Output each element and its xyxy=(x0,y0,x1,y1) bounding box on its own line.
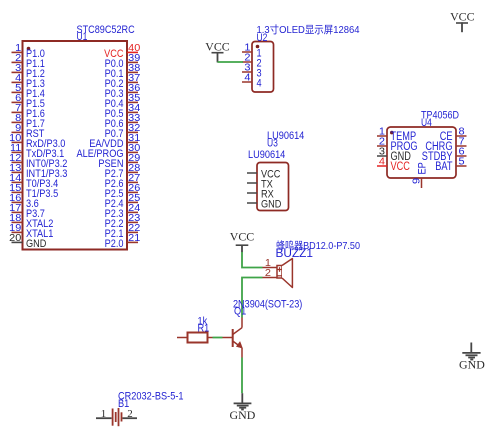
svg-text:1.3寸OLED显示屏12864: 1.3寸OLED显示屏12864 xyxy=(257,23,360,36)
U1 pin 28 (P2.7) xyxy=(105,163,141,180)
connector U2 1.3inch OLED display body xyxy=(252,42,274,93)
U1 pin 33 (P0.6) xyxy=(105,113,141,130)
U1 pin 26 (P2.5) xyxy=(105,183,141,200)
U1 pin 15 (T1/P3.5) xyxy=(9,183,58,200)
U2 part name label 1.3寸OLED显示屏12864 xyxy=(257,23,360,36)
U1 pin 21 (P2.0) xyxy=(105,233,141,250)
U4 pin 4 (VCC) xyxy=(377,157,410,174)
resistor R1 xyxy=(177,333,213,343)
svg-text:BAT: BAT xyxy=(435,161,452,173)
BUZZ1 pin 1 xyxy=(263,258,278,269)
U1 pin 29 (PSEN) xyxy=(98,153,140,170)
U2 pin 1 xyxy=(242,43,262,60)
buzzer BUZZ1 body xyxy=(277,259,292,288)
battery B1 pin 1 xyxy=(96,408,112,420)
U4 designator label xyxy=(421,117,432,129)
Q1 designator label xyxy=(234,306,246,318)
U1 pin 6 (P1.5) xyxy=(12,93,45,110)
U1 pin 18 (XTAL2) xyxy=(9,213,53,230)
U1 pin 9 (RST) xyxy=(12,123,45,140)
U1 pin 3 (P1.2) xyxy=(12,63,45,80)
svg-text:5: 5 xyxy=(459,157,466,168)
BUZZ1 pin 2 xyxy=(263,268,278,279)
U1 pin 30 (ALE/PROG) xyxy=(77,143,141,160)
R1 designator label xyxy=(198,323,210,335)
power port GND (right) xyxy=(459,343,485,372)
U1 pin 25 (P2.4) xyxy=(105,193,141,210)
svg-text:EP: EP xyxy=(417,162,429,174)
U1 pin 39 (P0.0) xyxy=(105,53,141,70)
svg-text:P2.0: P2.0 xyxy=(105,238,124,250)
U1 pin 2 (P1.1) xyxy=(12,53,45,70)
battery B1 pin 2 xyxy=(123,408,138,420)
U1 pin 27 (P2.6) xyxy=(105,173,141,190)
buzzer BUZZ1 part name label 蜂鸣器BD12.0-P7.50 xyxy=(276,239,360,252)
wire Q1 emitter to GND xyxy=(241,358,243,394)
svg-text:2: 2 xyxy=(265,268,271,279)
svg-text:GND: GND xyxy=(26,238,47,250)
svg-text:VCC: VCC xyxy=(230,230,255,244)
U2 pin 3 xyxy=(242,63,262,80)
wire VCC to BUZZ1 pin 1 xyxy=(242,252,263,268)
svg-text:GND: GND xyxy=(459,358,485,372)
wire BUZZ1 pin 2 to Q1 collector xyxy=(242,278,263,318)
U1 pin 20 (GND) xyxy=(9,233,46,250)
U4 pin 1 (TEMP) xyxy=(377,127,416,144)
U4 pin 7 (CHRG) xyxy=(425,137,466,154)
battery B1 body xyxy=(113,408,122,426)
U4 part name label TP4056D xyxy=(421,110,459,122)
U3 part name label LU90614 xyxy=(267,130,304,142)
U1 pin 22 (P2.1) xyxy=(105,223,141,240)
U4 pin 9 (EP) xyxy=(412,162,429,188)
U1 pin 4 (P1.3) xyxy=(12,73,45,90)
U1 pin 8 (P1.7) xyxy=(12,113,45,130)
U2 designator label xyxy=(257,32,268,44)
U1 pin 40 (VCC) xyxy=(104,43,141,60)
wire VCC to U2 pin 2 xyxy=(218,61,244,63)
BUZZ1 designator label xyxy=(276,248,314,260)
U4 pin 8 (CE) xyxy=(440,127,467,144)
svg-text:4: 4 xyxy=(257,78,262,90)
transistor Q1 part name label 2N3904(SOT-23) xyxy=(233,299,302,311)
U1 part name label STC89C52RC xyxy=(77,24,135,36)
U3 pin 4 (GND) xyxy=(247,199,282,211)
U1 pin 16 (3.6) xyxy=(9,193,39,210)
U3 comment label LU90614 xyxy=(248,149,285,161)
U1 pin 24 (P2.3) xyxy=(105,203,141,220)
svg-text:20: 20 xyxy=(9,233,22,244)
svg-text:1: 1 xyxy=(101,408,107,420)
U1 pin 13 (INT1/P3.3) xyxy=(9,163,67,180)
U2 pin 4 xyxy=(242,73,262,90)
U1 pin 7 (P1.6) xyxy=(12,103,45,120)
U1 pin 35 (P0.4) xyxy=(105,93,141,110)
svg-text:U4: U4 xyxy=(421,117,432,129)
U1 pin 36 (P0.3) xyxy=(105,83,141,100)
IC U1 STC89C52RC body xyxy=(23,41,128,250)
U1 pin 32 (P0.7) xyxy=(105,123,141,140)
U2 pin 2 xyxy=(242,53,262,70)
U1 pin 17 (P3.7) xyxy=(9,203,45,220)
U1 pin 19 (XTAL1) xyxy=(9,223,53,240)
svg-text:U2: U2 xyxy=(257,32,268,44)
U1 pin 10 (RxD/P3.0) xyxy=(9,133,65,150)
svg-text:4: 4 xyxy=(379,157,386,168)
power port VCC (at buzzer) xyxy=(230,230,255,253)
U1 pin 11 (TxD/P3.1) xyxy=(10,143,64,160)
U1 pin 14 (T0/P3.4) xyxy=(9,173,58,190)
U1 pin 12 (INT0/P3.2) xyxy=(9,153,67,170)
U4 pin 2 (PROG) xyxy=(377,137,418,154)
svg-text:2: 2 xyxy=(127,408,133,420)
U1 pin 1 (P1.0) xyxy=(12,43,45,60)
transistor Q1 2N3904 NPN xyxy=(223,318,243,358)
U4 pin 6 (STDBY) xyxy=(422,147,467,164)
svg-text:U3: U3 xyxy=(267,138,278,150)
U3 pin 2 (TX) xyxy=(247,179,273,191)
svg-text:BUZZ1: BUZZ1 xyxy=(276,248,314,260)
U3 designator label xyxy=(267,138,278,150)
svg-text:4: 4 xyxy=(244,73,251,84)
B1 designator label xyxy=(118,398,129,410)
svg-text:21: 21 xyxy=(128,233,140,244)
U1 pin 38 (P0.1) xyxy=(105,63,141,80)
U1 pin 37 (P0.2) xyxy=(105,73,141,90)
IC U4 TP4056D body xyxy=(387,127,456,178)
U1 designator label xyxy=(77,31,88,43)
svg-text:VCC: VCC xyxy=(205,40,230,54)
svg-text:9: 9 xyxy=(412,178,423,184)
wire R1 to Q1 base xyxy=(213,337,223,339)
U1 pin 5 (P1.4) xyxy=(12,83,45,100)
U1 pin 34 (P0.5) xyxy=(105,103,141,120)
svg-text:VCC: VCC xyxy=(391,161,410,173)
U3 pin 1 (VCC) xyxy=(247,169,281,181)
battery B1 part name label CR2032-BS-5-1 xyxy=(118,391,184,403)
U3 pin 3 (RX) xyxy=(247,189,274,201)
power port VCC (top right) xyxy=(450,10,475,33)
module U3 LU90614 body xyxy=(257,163,289,211)
U4 pin 3 (GND) xyxy=(377,147,411,164)
svg-text:GND: GND xyxy=(230,408,256,422)
power port GND (below Q1) xyxy=(230,393,256,422)
svg-text:VCC: VCC xyxy=(450,10,475,24)
svg-text:Q1: Q1 xyxy=(234,306,246,318)
svg-text:U1: U1 xyxy=(77,31,88,43)
power port VCC (at U2) xyxy=(205,40,230,63)
svg-text:LU90614: LU90614 xyxy=(248,149,285,161)
U4 pin 5 (BAT) xyxy=(435,157,466,174)
U1 pin 31 (EA/VDD) xyxy=(89,133,140,150)
svg-text:GND: GND xyxy=(261,199,282,211)
resistor R1 value label 1k xyxy=(198,316,208,328)
U1 pin 23 (P2.2) xyxy=(105,213,141,230)
